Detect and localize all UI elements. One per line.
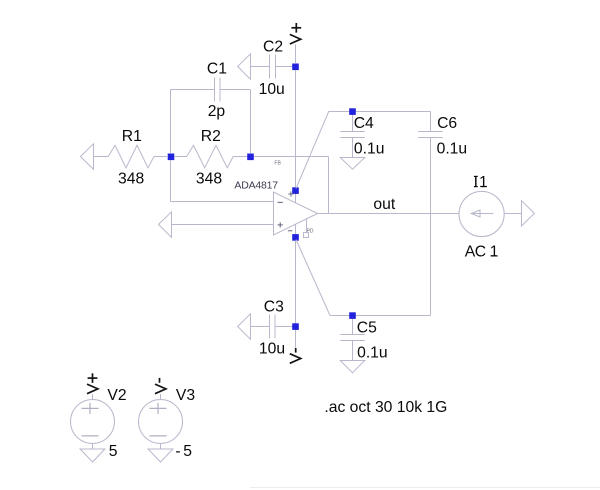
wire C1 left horizontal <box>171 89 215 91</box>
svg-text:R2: R2 <box>201 128 221 145</box>
svg-text:PD: PD <box>307 229 314 235</box>
svg-text:2p: 2p <box>208 103 226 120</box>
ground G3 (under V2) <box>80 449 105 462</box>
node junction J4 (op-amp V+ pin) <box>292 187 299 194</box>
op-amp U1 ADA4817 triangle <box>274 192 318 235</box>
current source I1 arrow <box>471 210 493 217</box>
port P1 (input, left of R1) <box>81 144 94 170</box>
wire C1 loop right vertical <box>250 90 252 154</box>
node junction J2 (R2/C1/FB wire) <box>247 154 254 161</box>
capacitor C6 <box>418 132 443 138</box>
label I1 <box>474 174 489 191</box>
capacitor C2 <box>270 55 276 79</box>
svg-text:.ac oct 30 10k 1G: .ac oct 30 10k 1G <box>324 399 447 416</box>
svg-text:-: - <box>175 443 180 460</box>
wire C5 to ground <box>352 341 354 361</box>
node junction J3 (C2 / V+ rail) <box>292 64 299 71</box>
power flag V- (V3) <box>155 378 166 394</box>
svg-text:C3: C3 <box>264 298 284 315</box>
ground G4 (under V3) <box>148 449 173 462</box>
op-amp non-inverting input plus <box>278 222 283 227</box>
value I1 AC 1 <box>465 243 498 260</box>
wire V3 bottom to ground <box>160 444 162 450</box>
faint canvas edge line bottom <box>250 487 600 489</box>
wire V2 bottom to ground <box>92 444 94 450</box>
node junction J7 (C4 top) <box>349 108 356 115</box>
voltage source V2 circle <box>71 400 115 444</box>
svg-text:ADA4817: ADA4817 <box>234 180 278 192</box>
wire C6 rail upper <box>430 112 432 132</box>
power flag V- (bottom) <box>290 348 301 363</box>
wire node J1 down to inverting input <box>170 160 172 202</box>
wire port to C2 <box>251 66 270 68</box>
svg-text:C4: C4 <box>354 115 374 132</box>
wire I1 to output port <box>504 213 521 215</box>
wire C1 right horizontal <box>220 89 251 91</box>
svg-text:C6: C6 <box>437 115 457 132</box>
wire C1 loop left vertical <box>170 90 172 154</box>
wire port to C3 <box>251 326 270 328</box>
wire non-inverting input horizontal <box>172 224 274 226</box>
op-amp V+ pin plus mark <box>288 191 293 196</box>
port P4 (left of C3) <box>238 314 251 340</box>
wire V2 top to flag <box>92 394 94 400</box>
svg-text:0.1u: 0.1u <box>357 344 388 361</box>
wire C4 stub <box>352 115 354 132</box>
svg-text:R1: R1 <box>122 128 142 145</box>
op-amp V- pin minus mark <box>288 230 293 232</box>
resistor R1 <box>94 145 168 168</box>
wire diagonal V- pin to bottom rail <box>296 240 330 316</box>
wire diagonal V+ pin to top rail <box>296 112 329 189</box>
svg-text:C1: C1 <box>207 61 227 78</box>
port P2 (non-inverting input) <box>159 212 172 238</box>
wire C6 rail lower (down to bottom supply wire) <box>430 138 432 316</box>
wire V+ rail down to op-amp supply pin <box>295 70 297 203</box>
op-amp PD pin box <box>304 233 309 238</box>
node junction J1 (R1/R2/C1/inverting input) <box>168 154 175 161</box>
node junction J5 (op-amp V- pin) <box>292 234 299 241</box>
port P3 (left of C2) <box>238 54 251 80</box>
wire C2 to V+ rail <box>276 66 296 68</box>
ground G1 (under C4) <box>340 158 365 170</box>
power flag V+ (V2) <box>87 373 98 393</box>
V2 internal plus <box>82 403 99 414</box>
svg-text:FB: FB <box>274 161 281 167</box>
op-amp inverting input minus <box>278 201 283 203</box>
node junction J8 (C5 top) <box>349 312 356 319</box>
ground G2 (under C5) <box>340 361 365 373</box>
wire C3 to V- rail <box>275 326 296 328</box>
capacitor C5 <box>340 335 365 341</box>
wire C4 to ground <box>352 138 354 158</box>
svg-text:C2: C2 <box>263 39 283 56</box>
wire C5 stub <box>352 319 354 335</box>
svg-text:10u: 10u <box>259 81 285 98</box>
node junction J6 (C3 / V- rail) <box>292 323 299 330</box>
V2 internal minus <box>82 435 99 437</box>
wire FB feedback run (node J2 to right) <box>254 156 329 158</box>
wire V3 top to flag <box>160 394 162 400</box>
port P5 (output, right of I1) <box>522 201 535 226</box>
svg-text:5: 5 <box>183 443 192 460</box>
power flag V+ (top) <box>290 23 301 44</box>
wire inverting input horizontal <box>171 201 274 203</box>
wire feedback vertical down to output <box>328 157 330 214</box>
wire V- rail down to C3 node <box>295 241 297 348</box>
wire V- pin stub up into triangle <box>295 224 297 234</box>
capacitor C3 <box>270 315 276 339</box>
wire V+ flag to C2 node <box>295 45 297 64</box>
svg-text:AC 1: AC 1 <box>465 243 498 260</box>
svg-text:out: out <box>373 196 395 213</box>
capacitor C1 <box>215 78 221 102</box>
svg-text:V3: V3 <box>176 387 195 404</box>
V3 internal plus <box>150 403 167 414</box>
svg-text:0.1u: 0.1u <box>437 141 468 158</box>
svg-text:348: 348 <box>118 170 144 187</box>
svg-text:0.1u: 0.1u <box>354 140 385 157</box>
svg-text:V2: V2 <box>107 387 126 404</box>
svg-text:C5: C5 <box>357 319 377 336</box>
voltage source V3 circle <box>139 400 183 444</box>
resistor R2 <box>174 145 247 168</box>
wire bottom supply rail horizontal <box>330 315 431 317</box>
V3 internal minus <box>150 435 167 437</box>
op-amp PD pin line <box>306 219 308 232</box>
wire op-amp output <box>318 213 460 215</box>
svg-text:10u: 10u <box>259 341 285 358</box>
capacitor C4 <box>340 132 365 138</box>
wire top supply rail horizontal <box>329 111 431 113</box>
svg-text:348: 348 <box>196 171 222 188</box>
svg-text:5: 5 <box>109 443 118 460</box>
current source I1 circle <box>459 191 504 236</box>
